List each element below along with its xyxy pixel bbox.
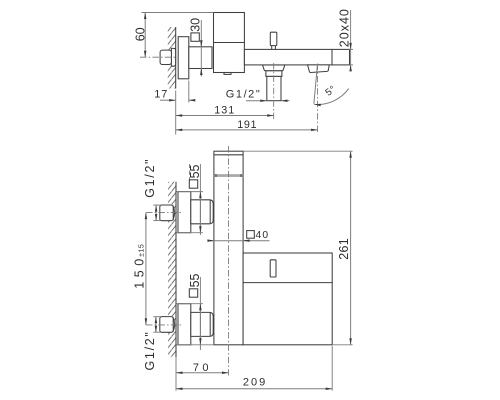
- dim 60 line: [144, 13, 146, 58]
- dim 150+-15 line: [145, 213, 147, 325]
- wall face line (top view): [175, 27, 177, 89]
- top valve centerline: [146, 212, 183, 214]
- dim 20x40 line: [350, 10, 352, 66]
- G1/2 top leader dim: [153, 204, 160, 206]
- wall hatching (top view): [168, 27, 176, 89]
- bottom valve body inner line: [209, 313, 211, 336]
- square-30 arrows: [200, 41, 202, 47]
- dim 261 line: [350, 151, 352, 345]
- housing-to-body joint line: [211, 47, 213, 69]
- 5deg arc: [314, 89, 349, 105]
- riser column: [214, 151, 243, 345]
- svg-text:±15: ±15: [139, 244, 146, 257]
- shower pipe centerline: [273, 63, 275, 120]
- shower hose pipe G1/2: [267, 76, 281, 100]
- square-55 bottom leader: [199, 277, 201, 350]
- spout outlet (tilted 5deg): [308, 65, 330, 73]
- inlet connector nut G1/2 (side view): [160, 50, 171, 64]
- shower outlet flange (trapezoid under bar): [263, 65, 285, 71]
- svg-text:70: 70: [193, 362, 212, 374]
- square-55 label bottom: [189, 289, 197, 297]
- dim 209 line: [176, 388, 332, 390]
- svg-text:209: 209: [243, 376, 267, 388]
- svg-text:60: 60: [133, 27, 147, 41]
- bottom valve centerline: [146, 324, 183, 326]
- svg-text:40: 40: [256, 230, 270, 241]
- wall hatching (front view): [168, 182, 176, 357]
- spout centerline: [317, 64, 319, 134]
- svg-text:261: 261: [337, 238, 351, 260]
- svg-text:G1/2": G1/2": [226, 89, 262, 101]
- dim 261 ext lines: [243, 150, 353, 152]
- top valve: wall nut: [160, 205, 173, 221]
- column centerline: [228, 146, 230, 376]
- svg-text:G1/2": G1/2": [143, 158, 157, 198]
- flange extension line down: [188, 81, 190, 103]
- dim square-30 leader line: [200, 20, 202, 77]
- dim 60 extension line (top): [142, 12, 214, 14]
- square-55 top dim arrows: [199, 192, 201, 233]
- bar end cap line: [331, 49, 333, 65]
- dim 70 line: [176, 372, 229, 374]
- hidden line above top valve: [189, 164, 191, 184]
- svg-text:55: 55: [188, 273, 202, 287]
- G1/2 leader (top view): [246, 100, 267, 102]
- column cap line: [214, 154, 243, 156]
- bottom valve flange: [178, 304, 191, 345]
- spout body split line: [243, 282, 332, 284]
- top valve body inner line: [209, 200, 211, 223]
- diverter knob (side view): [270, 32, 277, 45]
- inlet nipple lip at wall: [171, 48, 175, 66]
- square-55 top ext lines: [176, 191, 203, 193]
- bottom valve: wall nut: [160, 317, 173, 333]
- cartridge housing square 30 (side view): [189, 47, 212, 69]
- svg-text:17: 17: [154, 89, 168, 101]
- G1/2 bottom leader dim: [153, 316, 160, 318]
- handle split line: [214, 42, 245, 44]
- knob stem ticks: [271, 46, 273, 50]
- svg-text:55: 55: [188, 164, 202, 178]
- dim 131 line: [176, 115, 274, 117]
- dim 17 tails and arrows: [160, 99, 176, 101]
- square-55 label top: [189, 180, 197, 188]
- spout bar (side view): [244, 49, 349, 65]
- wall face line (front view): [175, 182, 177, 357]
- square-55 bottom ext lines: [176, 303, 203, 305]
- svg-text:131: 131: [214, 105, 235, 117]
- label square 30: [191, 33, 199, 41]
- diverter knob (front view): [270, 260, 276, 277]
- dim 191 line: [176, 129, 318, 131]
- column joint band: [214, 174, 243, 177]
- top valve nut curve: [173, 205, 175, 220]
- wall extension line down: [175, 357, 177, 391]
- svg-text:191: 191: [237, 119, 257, 131]
- small tab under body: [224, 73, 231, 75]
- square-55 bottom dim arrows: [199, 304, 201, 345]
- svg-text:20x40: 20x40: [338, 8, 352, 47]
- shower hose nut: [266, 71, 282, 77]
- spout body (front view): [243, 253, 332, 345]
- dim 20x40 extension ticks: [350, 48, 354, 50]
- spout axis 5deg slant line: [314, 66, 317, 104]
- mixer body block (side view): [214, 13, 245, 73]
- body right extension line down: [331, 346, 333, 391]
- bottom valve nut curve: [173, 317, 175, 332]
- svg-text:5°: 5°: [323, 84, 338, 99]
- svg-text:30: 30: [189, 18, 203, 32]
- dim square-40: [247, 231, 255, 239]
- top valve flange: [178, 192, 191, 233]
- wall flange / escutcheon (side view): [178, 37, 189, 79]
- square-55 top leader: [199, 164, 201, 235]
- inlet centerline: [140, 56, 179, 58]
- bottom valve body: [191, 312, 213, 336]
- svg-text:G1/2": G1/2": [143, 330, 157, 370]
- svg-text:150: 150: [133, 254, 147, 289]
- top valve body: [191, 200, 213, 224]
- wall extension line down: [175, 91, 177, 135]
